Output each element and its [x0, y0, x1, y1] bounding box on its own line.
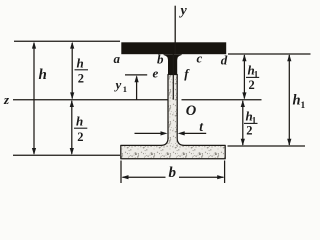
t dimension arrows: [135, 132, 164, 134]
svg-text:c: c: [197, 51, 203, 66]
svg-text:b: b: [169, 165, 177, 181]
top flange (black): [121, 42, 226, 54]
dimension line h/2 (upper): [71, 43, 73, 99]
svg-text:2: 2: [246, 124, 252, 138]
svg-text:d: d: [221, 53, 228, 68]
bottom-left extension line: [13, 154, 120, 156]
dimension line h/2 (lower): [71, 101, 73, 154]
web upper black part (area abcdef): [164, 54, 182, 74]
bottom-right extension line: [228, 145, 306, 147]
svg-text:O: O: [186, 103, 197, 119]
svg-text:1: 1: [301, 101, 306, 111]
svg-text:2: 2: [249, 78, 255, 92]
svg-text:y: y: [114, 77, 122, 92]
svg-text:y: y: [179, 4, 188, 19]
dimension line b: [123, 176, 166, 178]
dimension line h: [33, 43, 35, 154]
y axis: [174, 6, 176, 54]
bottom-right b extension line: [224, 161, 226, 184]
svg-text:e: e: [153, 66, 159, 81]
z axis (left segment): [13, 99, 168, 101]
svg-text:1: 1: [123, 84, 127, 94]
dimension line h1/2 (lower right): [242, 101, 244, 145]
dimension line h1 (outer right): [288, 55, 290, 145]
svg-text:2: 2: [77, 130, 83, 144]
top-right extension line: [228, 53, 311, 55]
svg-text:h: h: [293, 93, 301, 109]
dimension line h1/2 (upper right): [243, 55, 245, 99]
svg-text:h: h: [76, 114, 83, 129]
svg-text:h: h: [77, 56, 84, 71]
bottom-left b extension line: [120, 161, 122, 184]
svg-text:a: a: [114, 51, 121, 66]
y1 dimension arrow: [136, 77, 138, 100]
svg-text:2: 2: [78, 72, 84, 86]
bottom flange and web (stippled T shape): [121, 75, 225, 159]
top-left extension line: [14, 40, 120, 42]
svg-text:b: b: [157, 52, 164, 67]
svg-text:z: z: [3, 92, 10, 107]
svg-text:h: h: [39, 67, 47, 83]
z axis (right segment): [182, 99, 262, 101]
e-level tick line: [125, 74, 147, 76]
